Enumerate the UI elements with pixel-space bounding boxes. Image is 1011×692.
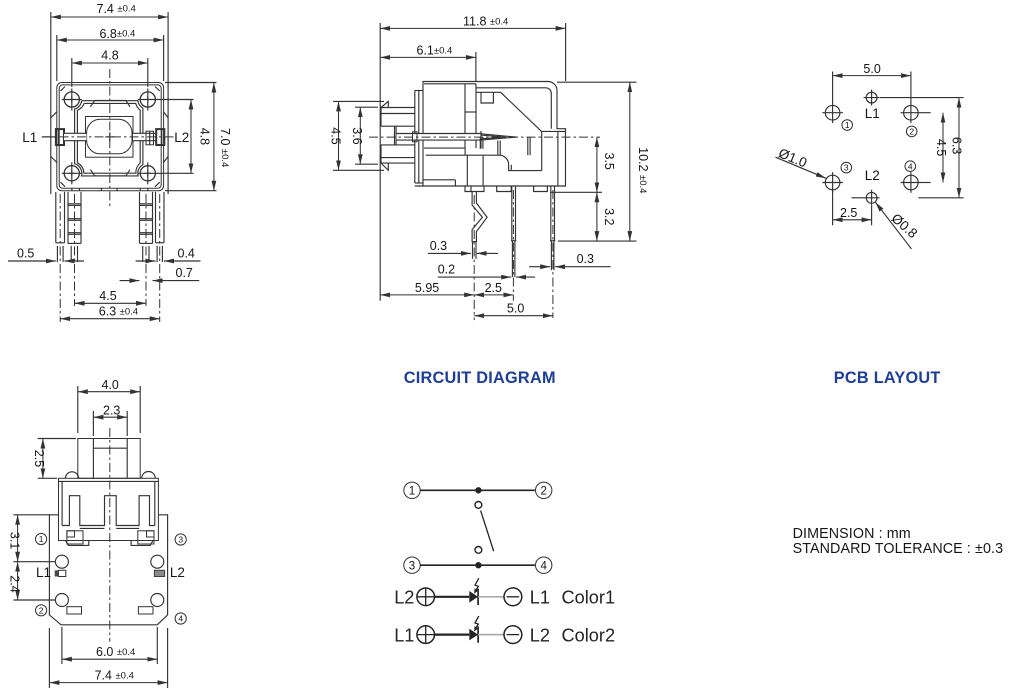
svg-text:5.95: 5.95 [415,281,439,295]
circuit: node dot upper [476,488,481,493]
svg-text:2.3: 2.3 [103,403,120,417]
svg-text:4.5: 4.5 [328,127,342,144]
side view: dim 4.5 [328,101,384,170]
front view: back plate [49,515,167,625]
svg-text:6.0 ±0.4: 6.0 ±0.4 [96,645,135,659]
svg-text:4.5: 4.5 [934,139,948,156]
side view: dim 3.6 [350,107,378,164]
pcb: hole 3 [825,175,840,190]
top view: label L1 [22,130,56,145]
svg-text:7.4 ±0.4: 7.4 ±0.4 [95,669,134,683]
svg-text:3.6: 3.6 [350,127,364,144]
circuit: LED Color2 [469,626,478,642]
side view: dim 5.95 [380,281,474,295]
circuit: light arrow [474,616,479,632]
front view: dim 2.4 [8,562,56,600]
side view: stem lower prong [381,145,415,170]
side view: inner slot [423,138,542,187]
svg-text:DIMENSION : mm: DIMENSION : mm [793,526,911,542]
front view: dim 3.1 [8,515,56,562]
side view: front wall [415,91,423,184]
side view: bottom feet [465,155,547,191]
side view: dim 10.2 +-0.4 [557,82,650,241]
top view: dim 7.4 +-0.4 [51,2,168,194]
front view: feet [66,541,154,546]
top view: left wing plate [51,27,168,194]
svg-text:2: 2 [540,485,546,497]
svg-text:L1: L1 [865,106,880,121]
pcb: hole L1 top [866,92,877,103]
side view: dim 0.3 right [529,252,611,267]
front view: button stem [78,439,140,479]
top view: button square [86,117,134,158]
side view: right column [542,131,566,186]
svg-text:7.0 ±0.4: 7.0 ±0.4 [218,128,232,167]
circuit: anode wire [435,596,470,598]
circuit: plus terminal [417,588,435,606]
svg-text:0.4: 0.4 [178,247,195,261]
svg-text:CIRCUIT DIAGRAM: CIRCUIT DIAGRAM [404,369,556,387]
side view: dim 3.5 [550,137,616,192]
svg-text:L2: L2 [394,588,414,608]
top view: pin 2 inner-left (L1 lead) [68,192,81,306]
top view: lead tube left [64,133,87,140]
circuit: minus terminal [504,626,522,644]
pcb: pad numbers [841,120,917,173]
circuit: wire 1-2 [420,489,535,491]
svg-text:4: 4 [908,161,913,171]
svg-text:L2: L2 [865,168,880,183]
top view: dim 0.5 [8,247,84,262]
pcb: dim 4.5 [921,113,948,183]
front view: latch blocks [67,531,154,544]
front view: dim 6.0 +-0.4 [62,627,157,664]
svg-text:L2: L2 [170,565,185,580]
side view: pin A bent [472,192,488,321]
side view: dim 2.5 [474,281,513,295]
top view: key tab top [90,100,130,106]
svg-text:7.4 ±0.4: 7.4 ±0.4 [97,2,136,16]
top view: dim 0.4 [136,247,201,262]
svg-text:1: 1 [39,534,44,544]
pcb: hole L2 bottom [866,192,877,203]
circuit: plus terminal [417,626,435,644]
pcb: dim 2.5 [833,190,872,225]
side view: dim 11.8 +-0.4 [380,15,565,301]
front view: post holes [55,555,163,606]
front view: terminal numbers [36,533,187,624]
svg-text:L2: L2 [174,130,189,145]
circuit: contact circle lower [475,547,482,554]
top view: dim 6.8 +-0.4 [57,27,164,81]
top view: key tab bottom [90,170,130,176]
side view: dim 3.2 [597,192,616,241]
side view: pin C right [550,186,555,318]
front view: lead cross-sections [55,570,165,614]
pcb: hole 1 [825,105,840,120]
svg-text:4: 4 [540,560,547,572]
top view: terminal L2 box [133,129,164,145]
pcb: dim 5.0 [833,62,911,103]
svg-text:2.5: 2.5 [485,281,502,295]
side view: dim 0.3 left [428,239,498,254]
top view: dim 4.5 [75,289,147,303]
pcb: label Ø0.8 [875,202,920,249]
circuit: wire 3-4 [420,564,535,566]
circuit: terminal 1 [404,482,420,498]
svg-text:4.8: 4.8 [197,128,211,145]
circuit: terminal 3 [404,557,420,573]
svg-text:2.5: 2.5 [840,206,857,220]
circuit: terminal 4 [536,557,552,573]
svg-text:3.1: 3.1 [8,532,22,549]
svg-text:6.1±0.4: 6.1±0.4 [417,44,453,58]
top view: pin 3 inner-right (L2 lead) [140,192,153,306]
svg-text:0.5: 0.5 [17,247,34,261]
circuit: switch lever [481,511,494,552]
front view: dim 2.5 [32,439,76,479]
front view: dim 4.0 [78,378,140,433]
pcb: label Ø1.0 [776,145,826,178]
circuit: light arrow [474,578,479,594]
svg-text:6.3: 6.3 [950,137,964,154]
circuit: anode wire [435,633,470,635]
svg-text:3: 3 [409,560,415,572]
svg-text:L1: L1 [22,130,37,145]
svg-text:Color1: Color1 [562,588,616,608]
svg-text:6.3 ±0.4: 6.3 ±0.4 [99,305,138,319]
side view: body outline [415,82,566,187]
svg-text:5.0: 5.0 [507,302,524,316]
svg-text:2: 2 [909,126,914,136]
svg-text:4.8: 4.8 [101,49,118,63]
side view: pin B middle [511,186,516,301]
front view: dim 2.3 [93,403,127,436]
svg-text:2.5: 2.5 [32,450,46,467]
svg-text:PCB LAYOUT: PCB LAYOUT [834,369,941,387]
svg-text:2.4: 2.4 [8,575,22,592]
front view: body [59,478,159,540]
top view: dim 0.7 [120,266,200,281]
svg-text:L2: L2 [530,625,550,645]
svg-text:2: 2 [39,605,44,615]
top view: pin 1 outer-left [56,192,65,322]
side view: center line [369,136,600,138]
top view: button round face [87,119,132,154]
svg-text:10.2 ±0.4: 10.2 ±0.4 [636,147,650,193]
svg-text:0.7: 0.7 [176,266,193,280]
top view: terminal L1 box [56,129,64,145]
side view: stem center rod and LED [395,126,517,149]
svg-text:L1: L1 [530,588,550,608]
pcb: dim 6.3 [880,98,964,198]
side view: dim 5.0 [474,302,553,316]
svg-text:3.2: 3.2 [602,208,616,225]
top view: body frame outer [57,83,164,191]
top view: actuator ring [75,101,143,176]
svg-text:1: 1 [409,485,415,497]
svg-text:3: 3 [178,535,183,545]
circuit: terminal 2 [536,482,552,498]
top view: dim 4.8 horizontal [72,49,148,88]
top view: corner post circles [62,89,194,185]
svg-text:3.5: 3.5 [602,153,616,170]
pcb: hole 2 [904,105,919,120]
svg-text:6.8±0.4: 6.8±0.4 [100,27,136,41]
svg-text:L1: L1 [394,625,414,645]
svg-text:Color2: Color2 [562,625,616,645]
top view: dim 7.0 +-0.4 [165,83,232,191]
front view: center line [109,428,111,642]
svg-text:5.0: 5.0 [863,62,880,76]
top view: dim 4.8 vertical [191,100,211,174]
circuit: cathode wire [478,596,504,598]
top view: pin 4 outer-right [156,192,165,322]
pcb: hole 4 [904,175,919,190]
svg-text:4.0: 4.0 [102,378,119,392]
front view: comb cover [62,496,155,529]
svg-text:0.3: 0.3 [430,239,447,253]
circuit: contact circle upper [475,502,482,509]
top view: dim 6.3 +-0.4 [60,305,160,319]
svg-text:4: 4 [178,614,183,624]
circuit: cathode wire [478,634,504,636]
svg-text:1: 1 [845,120,850,130]
side view: stem upper prong [381,101,415,126]
side view: dim 6.1 +-0.4 [380,44,476,82]
svg-text:0.2: 0.2 [438,263,455,277]
front view: dim 7.4 +-0.4 [49,628,167,688]
circuit: minus terminal [504,588,522,606]
svg-text:11.8 ±0.4: 11.8 ±0.4 [463,15,508,29]
top view: center lines [42,69,174,207]
circuit: LED Color1 [469,589,478,605]
svg-text:4.5: 4.5 [99,289,116,303]
circuit: node dot lower [476,563,481,568]
front view: shoulder domes [66,472,156,479]
side view: dim 0.2 [438,263,535,278]
svg-text:L1: L1 [36,565,51,580]
svg-text:3: 3 [844,163,849,173]
svg-text:0.3: 0.3 [577,252,594,266]
svg-text:STANDARD TOLERANCE : ±0.3: STANDARD TOLERANCE : ±0.3 [793,541,1004,557]
